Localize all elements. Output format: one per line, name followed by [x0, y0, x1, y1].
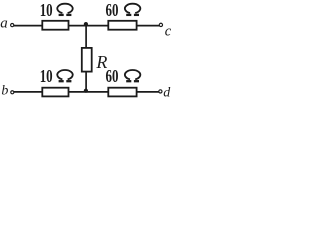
- svg-text:d: d: [163, 85, 171, 99]
- svg-text:10: 10: [40, 1, 53, 20]
- svg-text:10: 10: [40, 67, 53, 86]
- svg-text:b: b: [1, 84, 8, 99]
- svg-text:60: 60: [106, 67, 119, 86]
- svg-text:c: c: [165, 24, 172, 40]
- svg-text:60: 60: [106, 1, 119, 20]
- svg-text:R: R: [95, 52, 107, 72]
- svg-text:a: a: [0, 16, 8, 32]
